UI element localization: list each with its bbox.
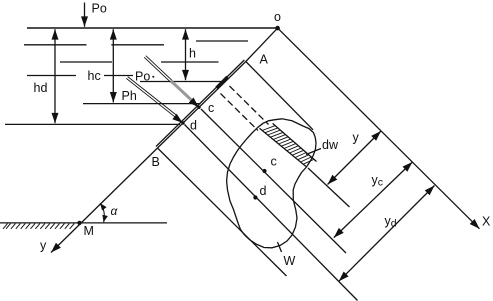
water level mark 2a [60, 61, 112, 63]
trace point c dot [197, 106, 200, 109]
lamina boundary W [227, 119, 316, 248]
svg-text:Po: Po [135, 69, 150, 83]
svg-text:hc: hc [88, 69, 101, 83]
hd depth line [5, 123, 180, 125]
water level mark 3 [27, 75, 76, 77]
Po pressure arrow gray shaft [171, 81, 193, 102]
svg-text:c: c [271, 155, 277, 169]
svg-text:dw: dw [322, 138, 339, 152]
Po surcharge arrow [84, 3, 86, 27]
inclined plane trace twin line [156, 60, 244, 147]
strip dW hatch lines [262, 126, 314, 165]
dimension arrow h [185, 29, 187, 80]
dimension arrow hc [112, 29, 114, 102]
Po pressure arrow double shaft [144, 57, 172, 83]
dashed projection line lower [221, 94, 259, 131]
node M dot [77, 221, 81, 225]
dimension arrow y [328, 131, 382, 185]
water level mark near o [196, 40, 248, 42]
svg-text:yc: yc [372, 173, 384, 189]
svg-text:y: y [40, 239, 47, 253]
svg-text:W: W [284, 254, 296, 268]
svg-text:yd: yd [385, 214, 397, 230]
Ph pressure arrow double shaft [126, 78, 175, 117]
svg-text:y: y [353, 131, 360, 145]
centroid c dot [262, 169, 266, 173]
free surface line [27, 27, 278, 29]
strip dW top edge [273, 123, 317, 161]
svg-text:M: M [84, 224, 94, 238]
plane side line from A [246, 62, 313, 130]
water level mark 2b [161, 61, 219, 63]
strip edge view thick segment on trace [217, 77, 228, 88]
centre of pressure d dot [253, 195, 257, 199]
svg-text:d: d [190, 119, 197, 133]
Po dot after label [152, 76, 154, 78]
dashed projection line upper [230, 86, 269, 125]
strip dW bottom edge [260, 128, 307, 166]
water level mark 1a [24, 44, 87, 46]
dimension arrow yc [334, 162, 413, 238]
W pointer tick [278, 242, 282, 252]
trace segment B to M and y axis [51, 148, 158, 253]
dimension arrow hd [54, 29, 56, 123]
trace point d dot [181, 121, 184, 124]
h depth line [140, 81, 222, 83]
dw pointer tick [306, 149, 321, 155]
X axis [278, 28, 480, 229]
svg-text:Po: Po [92, 2, 107, 16]
extension line through d E3 [185, 125, 358, 301]
svg-text:A: A [260, 53, 269, 67]
node o dot [275, 26, 280, 31]
svg-text:α: α [111, 204, 119, 218]
svg-text:d: d [260, 184, 267, 198]
svg-text:o: o [274, 10, 281, 24]
plane side line from B [158, 148, 287, 276]
ground hatching [3, 224, 74, 229]
extension line through c E2 [201, 109, 346, 253]
hc depth line [83, 103, 201, 105]
inclined plane trace A to B main line [158, 62, 246, 149]
trace segment o to A [246, 28, 278, 61]
Po pressure arrowhead at c [197, 106, 199, 108]
svg-text:Ph: Ph [122, 89, 137, 103]
ground line [0, 222, 167, 224]
water level mark 1b [111, 44, 164, 46]
extension line through strip E1 [308, 168, 350, 207]
svg-text:B: B [152, 155, 160, 169]
svg-text:h: h [189, 47, 196, 61]
svg-text:c: c [208, 101, 214, 115]
svg-text:X: X [482, 215, 491, 229]
svg-text:hd: hd [34, 81, 48, 95]
Ph pressure arrowhead at d [181, 122, 183, 123]
dimension arrow yd [339, 186, 435, 282]
angle arc at M [100, 203, 104, 222]
